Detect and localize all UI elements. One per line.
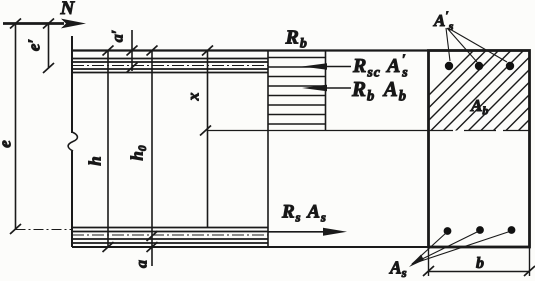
Rb stress block right edge <box>325 51 327 131</box>
dimension line e' <box>43 19 54 74</box>
leader lines As with arrowhead <box>409 232 510 268</box>
top rebar dots A's <box>445 62 514 70</box>
svg-text:a′: a′ <box>110 30 127 43</box>
force N arrow <box>3 19 86 29</box>
svg-text:h: h <box>86 156 105 165</box>
dimension line b <box>423 266 535 276</box>
dimension line h0 and a <box>147 46 158 267</box>
neutral axis line <box>208 130 429 132</box>
svg-text:e′: e′ <box>25 39 44 51</box>
svg-text:x: x <box>186 93 203 102</box>
member left edge with break <box>68 36 77 247</box>
bottom rebar dots As <box>444 226 516 235</box>
top reinforcement band <box>72 59 268 73</box>
member bottom edge <box>72 246 430 248</box>
dimension line a' <box>127 30 138 73</box>
svg-text:a: a <box>134 260 151 268</box>
member top edge <box>72 49 428 51</box>
bottom reinforcement band <box>72 228 268 244</box>
dimension b extension lines <box>429 247 530 276</box>
dimension line e <box>10 19 21 235</box>
svg-text:N: N <box>60 0 76 19</box>
cross-section hatch Ab <box>384 40 535 140</box>
svg-text:e: e <box>0 140 15 148</box>
arrow Rb Ab <box>302 85 351 91</box>
section cut line <box>267 51 269 248</box>
arrow Rs As <box>268 228 347 236</box>
dimension line x <box>200 46 213 229</box>
dimension line h <box>103 46 114 253</box>
neutral axis dashes in cross-section <box>428 130 530 132</box>
Rb stress block <box>268 58 326 125</box>
arrow Rsc A's <box>302 63 351 69</box>
cross-section outline <box>429 51 530 248</box>
leader lines A's <box>446 28 507 62</box>
centerline extension from e to member <box>16 229 73 231</box>
svg-text:b: b <box>476 255 484 272</box>
